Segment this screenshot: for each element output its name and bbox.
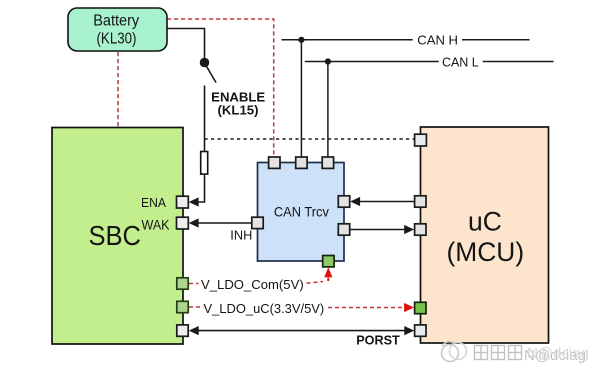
watermark logo: [442, 342, 467, 362]
wire: red dashed to uC green pin: [328, 307, 404, 309]
svg-text:CAN L: CAN L: [442, 55, 479, 70]
pin: uC V_LDO (green): [415, 302, 426, 313]
pin: SBC V_LDO_uC (green): [177, 301, 188, 312]
svg-text:V_LDO_uC(3.3V/5V): V_LDO_uC(3.3V/5V): [204, 301, 325, 316]
svg-text:CAN H: CAN H: [417, 33, 458, 48]
red arrowhead into uC LDO pin: [404, 303, 414, 312]
arrowhead into TXD pin: [350, 197, 360, 206]
wire: red dashed KL30 from battery right to CAN Trcv pin: [167, 19, 274, 157]
svg-text:V_LDO_Com(5V): V_LDO_Com(5V): [201, 277, 304, 292]
wire: CAN H drop to pin: [300, 40, 302, 157]
resistor R1: [201, 152, 208, 175]
pin: uC PORST: [415, 325, 426, 336]
wire: switch to resistor: [204, 86, 206, 152]
wire CAN L right segment: [483, 61, 554, 63]
CAN transceiver U2 box: [258, 163, 345, 262]
wire: battery to switch: [167, 29, 205, 60]
svg-text:SBC: SBC: [88, 220, 141, 251]
svg-text:N@dciag: N@dciag: [527, 345, 589, 362]
arrowhead PORST right: [404, 326, 414, 335]
pin: SBC WAK: [177, 217, 189, 229]
wire: CAN Trcv RXD to uC: [350, 229, 405, 231]
watermark text: [475, 346, 522, 360]
pin: SBC PORST: [177, 325, 188, 336]
wire CAN L left segment: [305, 61, 439, 63]
wire: INH to WAK arrow: [198, 222, 252, 224]
switch S1 pivot dot: [200, 58, 210, 68]
pin: uC TXD: [415, 196, 426, 207]
arrowhead into uC RXD pin: [404, 225, 414, 234]
uC U3 box: [421, 127, 549, 343]
battery B1 (KL30): [68, 8, 167, 51]
svg-text:uC: uC: [468, 207, 502, 237]
pin: CAN Trcv left INH: [252, 217, 263, 228]
pin: SBC V_LDO_Com (green): [177, 278, 188, 289]
wire: resistor to ENA arrow: [198, 175, 205, 203]
wire CAN H right segment: [462, 39, 530, 41]
wire: red dashed V_LDO_Com to arrow: [307, 282, 324, 284]
pin: CAN Trcv top KL30: [269, 157, 280, 168]
pin: CAN Trcv right TXD: [338, 196, 349, 207]
svg-text:(KL15): (KL15): [218, 103, 259, 118]
wire: red dashed SBC pin to V_LDO_uC label: [189, 306, 204, 308]
svg-text:ENA: ENA: [141, 195, 166, 210]
svg-text:(KL30): (KL30): [97, 31, 137, 48]
svg-text:(MCU): (MCU): [447, 237, 525, 267]
pin: CAN Trcv top CANH: [296, 157, 307, 168]
wire: dotted enable line to uC: [205, 138, 415, 140]
pin: SBC ENA: [177, 196, 189, 208]
switch S1 lever: [206, 66, 216, 83]
pin: uC top enable: [415, 134, 427, 146]
pin: uC RXD: [415, 224, 426, 235]
wire: red dashed SBC pin to V_LDO_Com label: [189, 283, 199, 285]
pin: CAN Trcv top CANL: [322, 157, 333, 168]
svg-text:INH: INH: [230, 227, 252, 242]
wire: uC to CAN Trcv TXD: [359, 201, 415, 203]
wire CAN H left segment: [282, 39, 413, 41]
svg-text:Battery: Battery: [93, 13, 139, 30]
junction dot CAN H: [298, 37, 304, 43]
wire: CAN L drop to pin: [327, 62, 329, 157]
pin: CAN Trcv right RXD: [338, 224, 349, 235]
arrowhead into ENA pin: [189, 197, 199, 206]
arrowhead PORST left: [189, 326, 199, 335]
red arrow up into CAN Trcv Vcc pin: [324, 267, 332, 277]
SBC U1 box: [52, 128, 183, 345]
pin: CAN Trcv bottom Vcc (green): [323, 256, 334, 267]
svg-text:CAN Trcv: CAN Trcv: [274, 203, 329, 219]
junction dot CAN L: [325, 58, 331, 64]
svg-text:PORST: PORST: [356, 332, 400, 347]
svg-text:WAK: WAK: [142, 216, 171, 232]
wire: red dashed battery down to SBC: [117, 52, 119, 127]
arrowhead into WAK pin: [189, 218, 199, 227]
wire: PORST double arrow: [196, 330, 407, 332]
